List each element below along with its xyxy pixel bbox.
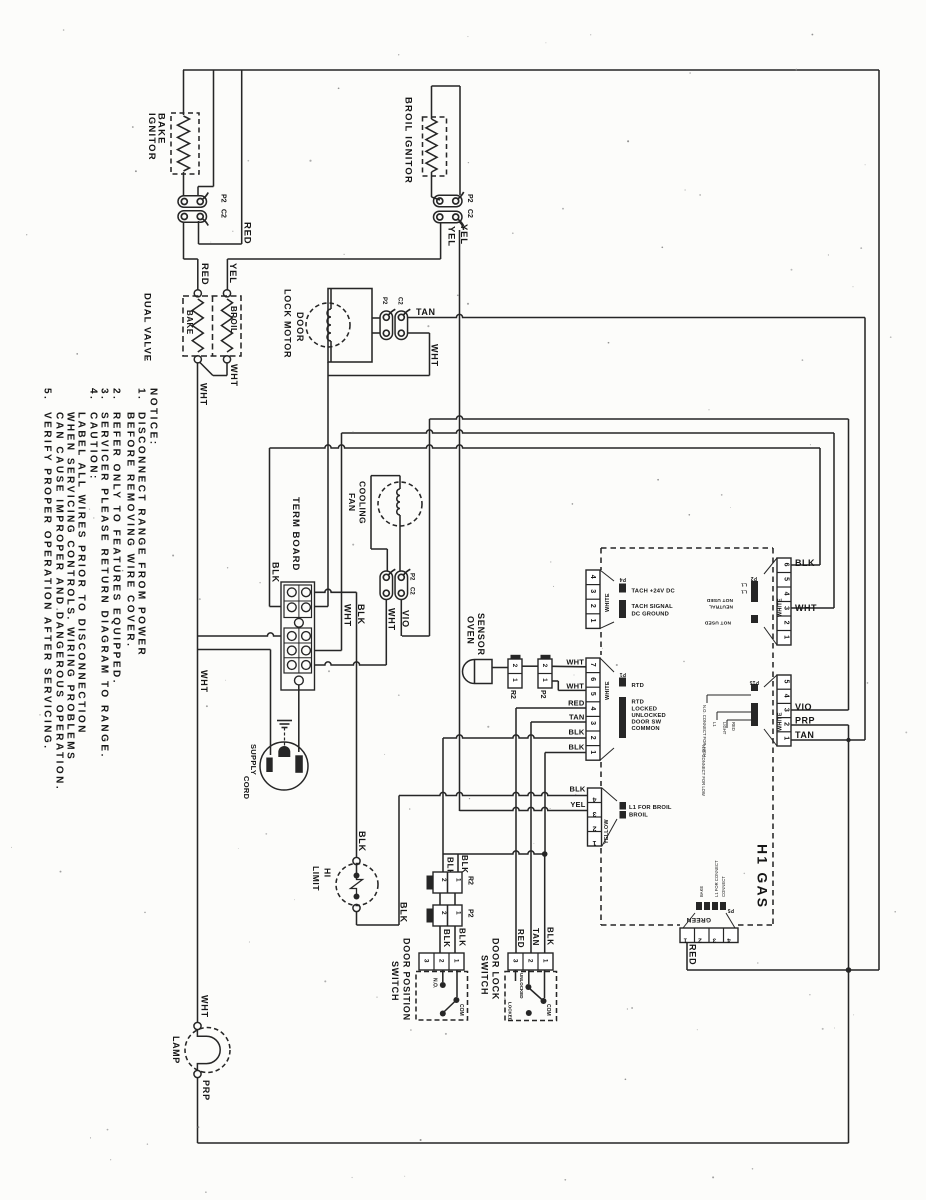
connector YELLOW 4-pin [588,788,602,846]
resistor bake ignitor element [178,116,190,171]
svg-text:P2: P2 [219,194,226,203]
door lock switch pin strip [508,953,553,970]
wire valve bottoms tied (WHT) [200,362,213,376]
svg-text:WHT: WHT [199,995,209,1018]
svg-text:SUPPLY: SUPPLY [249,744,258,775]
junction dot PRP/TAN crossing [846,738,850,742]
bake ignitor dashed box [171,113,199,174]
svg-text:YEL: YEL [446,226,457,247]
svg-text:DC GROUND: DC GROUND [632,612,670,618]
svg-text:NEUTRAL: NEUTRAL [709,604,733,610]
svg-text:L1: L1 [741,582,747,588]
svg-text:TAN: TAN [531,928,540,946]
svg-text:NOT USED: NOT USED [704,620,731,626]
connector GREEN 4-cell strip [680,928,738,943]
cooling fan dashed circle [378,482,422,526]
svg-text:H1 GAS: H1 GAS [754,844,770,909]
svg-text:1: 1 [589,619,596,623]
resistor broil valve coil [222,299,233,352]
wire TAN right vertical [864,318,866,741]
svg-text:P1: P1 [619,671,626,677]
svg-text:SERVICER PLEASE RETURN DIAGRAM: SERVICER PLEASE RETURN DIAGRAM TO RANGE. [98,412,109,759]
svg-text:2: 2 [440,878,447,882]
HI LIMIT dashed circle [336,864,378,906]
door lock motor box [328,289,372,363]
svg-text:BLK: BLK [568,743,584,752]
svg-text:1: 1 [542,959,549,963]
svg-text:BLK: BLK [270,562,280,583]
svg-text:2: 2 [592,825,596,832]
svg-text:3: 3 [423,959,430,963]
wire WHT sensor to board pin7 [552,665,586,668]
wire L1 right vertical [878,70,880,970]
wire VIO run [430,416,849,419]
svg-text:COOLING: COOLING [357,481,367,524]
svg-text:REFER ONLY TO FEATURES EQUIPPE: REFER ONLY TO FEATURES EQUIPPED. [110,412,121,685]
svg-text:P2: P2 [539,690,546,699]
header P5 pins green [696,902,702,910]
svg-text:1: 1 [455,911,462,915]
wire YEL broil long run to board [460,222,464,230]
svg-text:2: 2 [783,722,790,726]
wire bake connector to dual valve (RED) [183,222,185,259]
svg-text:UNLOCKED: UNLOCKED [519,973,524,999]
supply cord prong right [295,755,303,773]
header pins yellow [620,802,627,810]
svg-text:PRP: PRP [201,1080,211,1101]
wire L1 top run [183,69,879,71]
switch contacts door position [442,970,444,982]
board H1 GAS dashed outline [601,547,773,549]
svg-text:VIO: VIO [400,610,410,628]
svg-text:P5: P5 [727,907,734,913]
svg-text:WHITE: WHITE [777,712,783,731]
door lock switch dashed box [505,972,557,1021]
wire RED drop from L1 to bake connector [241,70,243,244]
svg-text:OVEN: OVEN [465,616,475,645]
svg-text:N.C. CONNECT FOR LOW: N.C. CONNECT FOR LOW [701,745,706,796]
svg-text:3: 3 [712,937,716,944]
svg-text:3.: 3. [98,388,109,401]
svg-text:LIMIT: LIMIT [311,866,321,891]
wire RED board to door lock [516,707,586,709]
svg-text:2: 2 [783,621,790,625]
svg-text:N.O.: N.O. [432,978,438,989]
svg-text:LABEL ALL WIRES PRIOR TO DISCO: LABEL ALL WIRES PRIOR TO DISCONNECTION [75,412,86,735]
svg-text:1: 1 [455,878,462,882]
svg-text:P2: P2 [408,573,414,581]
svg-text:LOCK MOTOR: LOCK MOTOR [282,289,292,358]
wire BLK cross link [443,851,545,854]
svg-text:WHITE: WHITE [777,598,783,617]
coil door lock motor [327,309,331,341]
svg-text:YEL: YEL [570,800,585,809]
svg-text:3: 3 [783,708,790,712]
svg-text:YEL: YEL [227,263,238,284]
svg-text:BROIL IGNITOR: BROIL IGNITOR [403,97,414,184]
wire WHT main drop (valve to lamp) [197,363,199,1023]
svg-text:CAN CAUSE IMPROPER AND DANGERO: CAN CAUSE IMPROPER AND DANGEROUS OPERATI… [53,412,64,791]
wire RED from green pin1 [686,943,688,971]
header P4 pins [619,584,626,593]
wire TAN into board pin1 [791,739,865,741]
svg-text:6: 6 [589,677,596,681]
connector P15 WHITE 5-pin [777,675,791,746]
svg-text:TAN: TAN [795,730,814,740]
wire bake resistor bottom lead [183,172,185,196]
wire term lower r2 to WHT riser [315,650,342,652]
wire PRP board pin2 [791,724,849,726]
svg-text:2.: 2. [110,388,121,401]
connector P2/C2 door lock motor [372,317,380,319]
svg-text:C2: C2 [396,297,402,305]
svg-text:BLK: BLK [546,927,555,946]
svg-text:1: 1 [589,750,596,754]
wire BLK run [270,445,821,448]
svg-text:4: 4 [589,575,596,579]
wire WHT motor return [408,332,430,334]
svg-text:PRP: PRP [795,716,815,726]
resistor bake valve coil [192,299,203,352]
svg-text:1: 1 [511,678,518,682]
svg-text:P4: P4 [619,576,626,582]
svg-text:3: 3 [589,721,596,725]
supply cord prong left [266,758,272,773]
connector P2/C2 broil ignitor [434,195,463,207]
svg-text:2: 2 [511,664,518,668]
term board outer box [281,582,315,690]
junction dot PRP/RED/lamp [846,967,852,973]
wire YEL into yellow pin3 [460,807,588,810]
svg-text:BEFORE REMOVING WIRE COVER.: BEFORE REMOVING WIRE COVER. [124,412,135,648]
wire TAN motor to right side [408,314,866,317]
wire YEL broil to dual valve [440,223,442,260]
coil cooling fan [397,489,400,515]
svg-text:WHT: WHT [198,383,208,406]
wire WHT run [342,430,835,433]
header P1 pins [619,678,626,687]
door lock motor dashed circle [306,303,350,347]
svg-text:DOOR: DOOR [295,312,305,342]
svg-text:L1: L1 [741,589,747,595]
svg-text:2: 2 [698,937,702,944]
svg-text:WHT: WHT [429,344,439,367]
svg-text:P15: P15 [749,679,759,685]
svg-text:COMMON: COMMON [632,726,660,732]
header P15 pins [751,684,758,691]
svg-text:CORD: CORD [242,776,251,800]
internal jumper wires P15 [707,694,751,696]
svg-text:1: 1 [592,839,596,846]
svg-text:C2: C2 [466,209,473,218]
terminal circles lamp [194,1022,201,1029]
wire term row1 right to HI LIMIT [315,589,357,592]
svg-text:C2: C2 [408,587,414,595]
svg-text:4: 4 [589,707,596,711]
svg-text:P2: P2 [466,194,473,203]
header P2 pins [751,581,758,602]
svg-text:4.: 4. [87,388,98,401]
wire term bottom pin to supply cord [298,685,300,752]
svg-text:2: 2 [589,736,596,740]
svg-text:4: 4 [727,937,731,944]
svg-text:UNLOCKED: UNLOCKED [632,713,666,719]
wire broil ignitor loop [431,86,433,119]
wire WHT valve to supply cord [198,649,271,651]
svg-text:DISCONNECT RANGE FROM POWER: DISCONNECT RANGE FROM POWER [135,412,146,657]
wire motor WHT to term board [327,362,329,376]
connector R2 door position [433,872,462,893]
svg-text:BLK: BLK [442,929,451,948]
wire R2 to P2 [522,665,538,667]
svg-text:WHITE: WHITE [605,593,611,612]
svg-text:NOTICE:: NOTICE: [147,388,158,447]
wire BLK limit bottom to yellow pin4 [356,912,358,925]
connector P2/C2 cooling fan [380,571,393,600]
svg-text:P2: P2 [466,909,473,918]
svg-text:RED: RED [242,222,253,244]
svg-text:IGNITOR: IGNITOR [146,113,157,161]
svg-text:TAN: TAN [416,307,436,317]
svg-text:WHITE: WHITE [605,681,611,700]
wires P2 to door position switch [439,926,441,953]
term board pin circles [287,588,296,597]
svg-text:WHT: WHT [566,658,584,667]
wire lamp bottom to bottom run [197,1078,199,1143]
svg-text:BLK: BLK [357,831,367,852]
wire fan VIO drop [400,600,402,637]
svg-text:L1 FOR CONNECT: L1 FOR CONNECT [714,860,719,897]
svg-text:BAKE: BAKE [699,886,704,897]
svg-text:YEL: YEL [458,224,469,245]
svg-text:LOCKED: LOCKED [632,707,658,713]
broil ignitor dashed box [423,117,447,176]
svg-text:3: 3 [592,810,596,817]
svg-text:3: 3 [512,959,519,963]
svg-text:COM: COM [545,1004,551,1016]
connector P2 sensor [541,655,551,660]
svg-text:SWITCH: SWITCH [479,955,489,995]
connector P2 WHITE 6-pin [777,558,791,645]
wire sensor to R2 [492,667,508,669]
svg-text:DOOR LOCK: DOOR LOCK [490,938,500,1000]
junction dot BLK [542,851,548,857]
svg-text:7: 7 [589,663,596,667]
svg-text:BROIL: BROIL [229,306,238,333]
lamp dashed circle [185,1028,230,1073]
svg-text:C2: C2 [219,209,226,218]
wire BLK board pin2 loop [443,735,586,738]
strain relief marks [277,720,292,722]
lamp filament [197,1030,220,1070]
svg-text:SWITCH: SWITCH [390,961,400,1001]
connector P4 WHITE 4-pin [586,570,600,628]
svg-text:1: 1 [783,736,790,740]
svg-text:P2: P2 [381,297,387,305]
svg-text:1: 1 [541,678,548,682]
connector P2 door position [433,905,462,926]
svg-text:L1 FOR BROIL: L1 FOR BROIL [629,805,672,811]
svg-text:NOT USED: NOT USED [706,597,733,603]
svg-text:4: 4 [592,796,596,803]
svg-text:TAN: TAN [569,713,584,722]
wire WHT valve to term lower r1 [198,633,282,636]
svg-text:VERIFY PROPER OPERATION AFTER: VERIFY PROPER OPERATION AFTER SERVICING. [41,412,52,751]
svg-text:WHT: WHT [229,364,239,387]
svg-text:RED: RED [731,722,736,731]
wire BLK term to HI LIMIT [356,592,358,857]
wire BLK into yellow pin4 [399,792,588,795]
svg-text:BLK: BLK [569,785,585,794]
supply cord ground prong [278,746,290,757]
svg-text:1.: 1. [135,388,146,401]
svg-text:WHT: WHT [795,603,817,613]
svg-text:TERM BOARD: TERM BOARD [290,497,301,571]
svg-text:5: 5 [783,680,790,684]
svg-text:BLK: BLK [795,558,815,568]
svg-text:1: 1 [783,635,790,639]
resistor broil ignitor element [426,119,437,172]
svg-text:1: 1 [683,937,687,944]
svg-text:4: 4 [783,694,790,698]
terminal circles dual valve bottom [194,356,201,363]
svg-text:LAMP: LAMP [171,1036,181,1064]
wire bottom RED run [687,969,879,971]
svg-text:5: 5 [589,692,596,696]
door position switch pin strip [419,953,464,970]
svg-text:BROIL: BROIL [629,813,648,819]
wire fan WHT to term lower r3 [385,600,387,666]
svg-text:2: 2 [527,959,534,963]
connector R2 sensor [511,655,521,660]
wire VIO fan riser [429,419,431,636]
wire BLK board pin1 [545,752,586,754]
svg-text:R2: R2 [466,876,473,885]
wire bake ignitor top lead [183,70,185,115]
svg-text:BLK: BLK [398,902,408,923]
svg-text:LOCKED: LOCKED [507,1002,512,1022]
svg-text:P2: P2 [750,575,757,581]
wires R2 to P2 [439,893,441,905]
svg-text:DUAL VALVE: DUAL VALVE [142,293,153,362]
svg-text:5: 5 [783,577,790,581]
trapezoid green [683,913,695,928]
svg-text:6: 6 [783,563,790,567]
terminal circles dual valve top [194,290,201,297]
svg-text:RED: RED [687,944,697,965]
svg-text:WHT: WHT [386,608,396,631]
wire WHT sensor to board pin6 [552,680,558,682]
svg-text:TACH +24V DC: TACH +24V DC [632,589,676,595]
svg-text:R2: R2 [509,690,516,699]
svg-text:CONNECT: CONNECT [721,876,726,897]
svg-text:3: 3 [589,589,596,593]
thermostat element HI LIMIT [354,873,360,879]
svg-text:BLK: BLK [458,928,467,947]
sensor oven bulb [463,660,493,684]
svg-text:DOOR POSITION: DOOR POSITION [401,938,411,1021]
svg-text:COM: COM [458,1004,464,1016]
svg-text:L1: L1 [712,722,717,727]
dual valve dashed box [183,296,241,356]
connector P2/C2 bake ignitor [178,196,207,208]
svg-text:VIO: VIO [795,702,812,712]
svg-text:2: 2 [541,664,548,668]
svg-text:SENSOR: SENSOR [476,613,486,656]
supply cord circle [260,742,308,790]
svg-text:DOOR SW: DOOR SW [632,720,662,726]
terminal circles HI LIMIT [353,857,360,864]
svg-text:FAN: FAN [347,493,357,512]
svg-text:2: 2 [589,604,596,608]
svg-text:LIGHT: LIGHT [722,722,727,735]
wire BLK board to term row2 left [269,448,271,607]
connector P1 WHITE 7-pin [586,658,600,760]
wire bottom PRP run [198,1142,849,1144]
svg-text:WHT: WHT [199,670,209,693]
svg-text:RTD: RTD [632,683,645,689]
svg-text:RED: RED [516,929,525,948]
svg-text:HI: HI [322,868,332,878]
svg-text:BLK: BLK [568,728,584,737]
svg-text:BAKE: BAKE [185,310,194,335]
svg-text:5.: 5. [41,388,52,401]
svg-text:RED: RED [568,699,585,708]
wire TAN board to door lock [531,721,586,723]
svg-text:CAUTION:: CAUTION: [87,412,98,481]
wire bake ignitor return to connector [213,70,215,187]
svg-text:WHEN SERVICING CONTROLS. WIRIN: WHEN SERVICING CONTROLS. WIRING PROBLEMS [64,412,75,761]
svg-text:3: 3 [783,606,790,610]
door position switch dashed box [416,972,468,1021]
svg-text:2: 2 [438,959,445,963]
svg-text:WHT: WHT [342,604,352,627]
svg-text:1: 1 [453,959,460,963]
svg-text:RED: RED [199,263,210,285]
cooling fan box [371,475,400,477]
switch contacts door lock [515,970,517,981]
svg-text:TACH SIGNAL: TACH SIGNAL [632,604,674,610]
svg-text:WHT: WHT [566,682,584,691]
svg-text:2: 2 [440,911,447,915]
svg-text:4: 4 [783,592,790,596]
svg-text:RTD: RTD [632,700,645,706]
svg-text:BLK: BLK [460,855,469,874]
